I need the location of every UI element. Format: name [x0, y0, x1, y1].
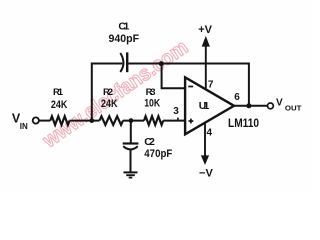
-V arrowhead	[201, 155, 209, 165]
svg-text:IN: IN	[20, 122, 28, 131]
node VIN terminal	[33, 117, 39, 123]
wire node B down to inverting input	[162, 64, 185, 89]
svg-text:10K: 10K	[144, 97, 160, 109]
wire R2 to R3	[123, 120, 144, 122]
capacitor C1	[120, 53, 123, 72]
svg-text:V: V	[276, 98, 283, 109]
svg-text:3: 3	[173, 106, 179, 117]
wire feedback top rail to output	[162, 64, 249, 106]
svg-text:940pF: 940pF	[109, 33, 140, 45]
pin 3 tick	[177, 118, 179, 121]
svg-text:24K: 24K	[51, 99, 68, 111]
node B junction C1/feedback/inverting input	[159, 61, 164, 66]
node A junction R1/R2/C1 riser	[89, 118, 94, 123]
wire C1 to node B top rail	[128, 63, 161, 65]
resistor R1	[50, 116, 69, 125]
svg-text:+V: +V	[198, 24, 212, 36]
plus input sign	[189, 120, 194, 122]
op-amp U1 triangle	[185, 77, 234, 134]
wire node C down to C2	[130, 121, 132, 143]
wire C2 to ground	[130, 150, 132, 172]
resistor R3	[144, 116, 163, 125]
resistor R2	[100, 116, 123, 125]
svg-text:C1: C1	[118, 20, 129, 32]
svg-text:7: 7	[208, 80, 214, 91]
svg-text:OUT: OUT	[285, 103, 302, 112]
pin 4 wire to -V	[204, 123, 206, 157]
svg-text:U1: U1	[199, 100, 210, 112]
node VOUT terminal	[268, 103, 274, 109]
svg-text:24K: 24K	[101, 98, 118, 110]
svg-text:4: 4	[207, 127, 213, 138]
wire R1 to R2	[70, 120, 100, 122]
wire op-amp output	[234, 105, 267, 107]
svg-text:470pF: 470pF	[144, 148, 172, 160]
capacitor C2	[123, 142, 139, 144]
svg-text:6: 6	[234, 92, 240, 103]
ground	[124, 171, 138, 173]
pin 7 wire to +V	[205, 45, 207, 90]
svg-text:R1: R1	[53, 87, 64, 98]
minus input sign	[188, 86, 193, 88]
svg-text:R3: R3	[146, 87, 156, 98]
wire VIN to R1	[39, 120, 50, 122]
svg-text:R2: R2	[103, 87, 113, 98]
+V arrowhead	[202, 36, 210, 47]
wire R3 to op-amp pin 3	[163, 120, 185, 122]
wire riser node A up to C1 rail	[92, 64, 123, 121]
node C junction R2/R3/C2	[129, 118, 134, 123]
node D output/feedback junction	[246, 103, 251, 108]
svg-text:−V: −V	[199, 168, 213, 180]
svg-text:C2: C2	[144, 136, 155, 148]
svg-text:LM110: LM110	[228, 118, 259, 130]
